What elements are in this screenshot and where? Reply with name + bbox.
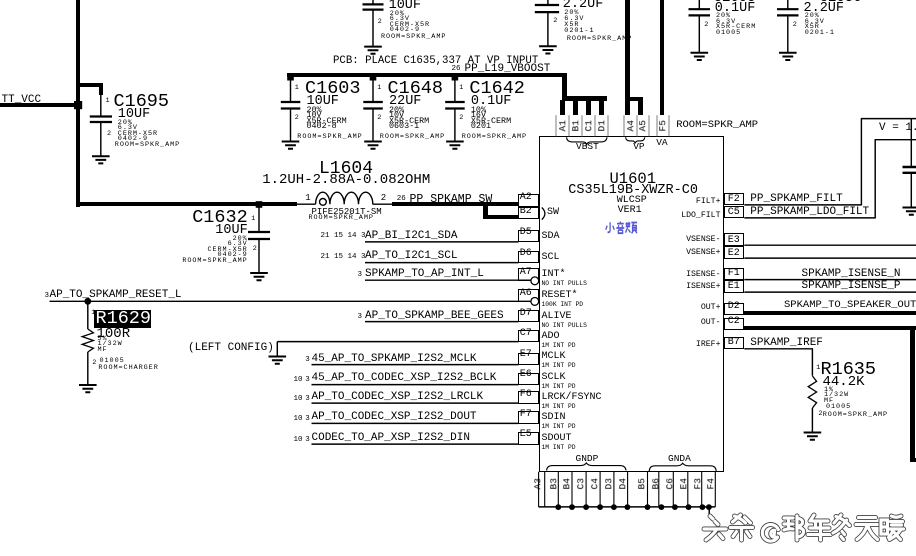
- capacitor C1603 dielectric: [307, 117, 347, 125]
- wire SPKAMP_TO_AP_INT_L: [365, 279, 531, 281]
- wire BATT_VCC horizontal: [0, 103, 80, 107]
- capacitor cap2 package: [564, 28, 594, 35]
- note PCB placement: [333, 56, 538, 67]
- capacitor C1695 tolerance: [118, 120, 133, 127]
- resistor R1629 designator: [96, 310, 152, 329]
- wire 45_AP_TO_SPKAMP_I2S2_MCLK: [312, 364, 519, 366]
- pin label C6: [666, 464, 676, 504]
- pin name VSENSEn: [686, 236, 720, 244]
- pin number F2: [728, 195, 740, 205]
- capacitor C1648 package: [389, 122, 419, 130]
- pin box C5: [724, 206, 745, 219]
- capacitor C1603 room: [297, 134, 362, 141]
- pin number A7: [520, 268, 532, 278]
- net PP_SPKAMP_SW: [410, 194, 493, 206]
- capacitor C1603 pin 2: [295, 115, 300, 122]
- pin label A1: [558, 105, 568, 145]
- wire VP vertical: [625, 0, 630, 115]
- brace VBST: [567, 137, 608, 144]
- label VA: [656, 138, 667, 148]
- capacitor cap1 value: [389, 0, 421, 12]
- pin label A5: [638, 105, 648, 145]
- wire VP branch to A5: [625, 97, 643, 101]
- label GNDA: [668, 454, 691, 464]
- wire C1648 lead top: [372, 76, 374, 101]
- wire AP_TO_SPKAMP_RESET_L: [50, 300, 532, 302]
- net SPKAMP_ISENSE_N: [802, 269, 901, 280]
- pin name IREFp: [696, 341, 721, 349]
- capacitor C1695 pin 2: [107, 131, 112, 138]
- pin note 1: [542, 302, 584, 308]
- capacitor C1642 value: [471, 95, 512, 109]
- wire cap1 lead top: [372, 0, 374, 4]
- wire VA vertical: [660, 0, 664, 115]
- pin label B5: [637, 464, 647, 504]
- wire GND bus drop: [708, 507, 710, 518]
- watermark strokes: [704, 516, 726, 540]
- resistor R1635 pin 2: [818, 411, 823, 418]
- net ref SDA: [321, 233, 366, 241]
- inductor L1604 designator: [319, 160, 373, 178]
- capacitor C1648 plates: [363, 102, 383, 109]
- pin box E2: [724, 246, 745, 259]
- capacitor C1648 pin 1: [377, 85, 382, 92]
- pin name OUTn: [701, 319, 721, 327]
- pin name LDO_FILT: [681, 212, 720, 220]
- junction R1629 tap: [84, 298, 91, 305]
- pin number C7: [520, 329, 532, 339]
- net ref MCLK: [305, 357, 310, 365]
- capacitor C1648 dielectric: [389, 117, 429, 125]
- pin label D4: [618, 464, 628, 504]
- pin note 8: [542, 445, 576, 451]
- pin note 0: [542, 281, 587, 287]
- inductor L1604 part number: [312, 208, 382, 217]
- junction C1642 tap: [452, 74, 459, 81]
- wire AP_TO_CODEC_XSP_I2S2_DOUT: [312, 422, 519, 424]
- pin name ADO: [542, 332, 560, 342]
- wire VBST corner down: [562, 73, 567, 101]
- capacitor cap1 package: [390, 27, 420, 34]
- pin number C2: [728, 317, 740, 327]
- wire branch to C1695: [76, 83, 103, 87]
- resistor R1635 pin 1: [816, 365, 821, 372]
- capacitor C1642 pin 1: [459, 85, 464, 92]
- capacitor cap2 room: [567, 36, 632, 43]
- ground C1648: [364, 142, 382, 149]
- resistor R1629 pin 2: [92, 360, 97, 367]
- wire CODEC_TO_AP_XSP_I2S2_DIN: [312, 443, 519, 445]
- pin note 2: [542, 323, 587, 329]
- junction GNDP bus x586: [583, 504, 589, 510]
- pin box B2: [518, 207, 539, 220]
- pin box A7: [518, 268, 539, 281]
- wire VBST stub C1: [586, 100, 591, 115]
- pin label F3: [693, 464, 703, 504]
- capacitor cap1 voltage: [390, 16, 410, 23]
- capacitor C1605 value: [715, 2, 756, 16]
- note V = 1.8: [879, 123, 916, 134]
- capacitor cap1 plates: [363, 4, 384, 9]
- pin box F7: [518, 411, 539, 424]
- capacitor cap2 voltage: [564, 16, 584, 23]
- capacitor C1642 designator: [469, 80, 525, 99]
- ground cap4: [779, 53, 797, 60]
- pin box F6: [518, 391, 539, 404]
- capacitor C1695 plates: [90, 117, 112, 123]
- capacitor C1695 pin 1: [106, 98, 111, 105]
- net SPKAMP_IREF: [750, 338, 823, 349]
- net SPKAMP_TO_AP_INT_L: [365, 269, 484, 280]
- resistor R1635 room: [823, 412, 888, 419]
- pin name ISENSEn: [686, 271, 720, 279]
- capacitor C1632 pin 2: [253, 246, 258, 253]
- pin box D6: [518, 251, 539, 264]
- net CODEC_TO_AP_XSP_I2S2_DIN: [312, 433, 470, 444]
- pin number F1: [728, 269, 740, 279]
- resistor R1629 room: [98, 365, 158, 372]
- label VBST: [576, 142, 599, 152]
- capacitor C1642 pin 2: [459, 115, 464, 122]
- op-amp U1601 designator: [610, 172, 657, 188]
- pin label B1: [571, 105, 581, 145]
- net ref DOUT 3: [305, 416, 310, 424]
- capacitor C1648 tolerance: [389, 106, 404, 114]
- label VP: [633, 142, 644, 152]
- wire cap3 lead top: [698, 0, 700, 9]
- op-amp U1601 part number: [568, 184, 698, 198]
- ground C1695: [92, 156, 110, 163]
- wire C1648 lead bottom: [372, 110, 374, 142]
- junction GNDA bus x674: [672, 504, 678, 510]
- pin name OUTp: [701, 304, 721, 312]
- annotation xiao yin pin: [606, 222, 637, 234]
- wire cap3 lead bottom: [698, 16, 700, 52]
- capacitor C1603 plates: [281, 102, 301, 109]
- capacitor C1648 room: [380, 134, 445, 141]
- pin name INTstar: [542, 270, 566, 280]
- op-amp U1601 VER1: [618, 206, 642, 216]
- wire VCC vertical main: [76, 0, 80, 207]
- capacitor C1695 dielectric: [118, 131, 158, 138]
- capacitor cap1 tolerance: [390, 11, 405, 18]
- junction GNDA bus x702: [700, 504, 706, 510]
- ground LEFT CONFIG: [269, 357, 287, 364]
- wire VBST bar over pins: [562, 96, 607, 100]
- capacitor C1642 plates: [445, 102, 465, 109]
- net ref LRCLK 3: [305, 396, 310, 404]
- wire SPKAMP_TO_SPEAKER_OUT+ D2: [744, 311, 916, 316]
- resistor R1635 power: [824, 392, 849, 399]
- capacitor C1642 tolerance: [471, 106, 486, 114]
- wire VBST stub B1: [573, 100, 578, 115]
- wire B2 jog vertical: [483, 202, 488, 219]
- capacitor C1605 tolerance: [716, 13, 731, 20]
- pin number A2: [520, 193, 532, 203]
- capacitor C1603 value: [307, 95, 339, 109]
- pin name SDIN: [542, 413, 566, 423]
- ground C1642: [446, 142, 464, 149]
- ground C1632: [250, 273, 268, 280]
- capacitor C1642 dielectric: [471, 117, 511, 125]
- net PP_SPKAMP_FILT: [750, 194, 842, 205]
- pin number D2: [728, 302, 740, 312]
- resistor R1629 package: [100, 358, 125, 365]
- pin name ISENSEp: [686, 283, 720, 291]
- capacitor cap2 tolerance: [564, 10, 579, 17]
- resistor R1629 power: [98, 341, 123, 348]
- pin label A3: [533, 464, 543, 504]
- wire C7 from ground: [277, 342, 518, 357]
- wire VBST stub D1: [599, 100, 604, 115]
- capacitor C1605 voltage: [716, 19, 736, 26]
- inductor L1604 coil: [316, 192, 373, 204]
- net 45_AP_TO_SPKAMP_I2S2_MCLK: [312, 354, 477, 365]
- resistor R1629 designator highlight: [94, 310, 151, 328]
- resistor R1635 type: [824, 398, 834, 405]
- pin name SCLK: [542, 373, 566, 383]
- capacitor C1603 tolerance: [307, 106, 322, 114]
- wire L1604 pin1 lead: [297, 203, 316, 205]
- capacitor C1605 dielectric: [716, 24, 756, 31]
- capacitor C1632 value: [215, 224, 247, 238]
- capacitor C1636 designator cut: [820, 0, 862, 5]
- wire VBST stub A1: [560, 100, 565, 115]
- capacitor cap2 plates: [535, 5, 559, 12]
- junction GNDP bus x600: [597, 504, 603, 510]
- pin number F6: [520, 390, 532, 400]
- pin number E6: [520, 370, 532, 380]
- pin number D6: [520, 249, 532, 259]
- inverter bubble RESET* A6: [531, 298, 539, 306]
- capacitor C1603 pin 1: [295, 85, 300, 92]
- capacitor cap2 value: [563, 0, 604, 12]
- pin name LRCK_FSYNC: [542, 393, 602, 403]
- ground C1603: [282, 142, 300, 149]
- pin name FILTp: [696, 198, 721, 206]
- net SPKAMP_ISENSE_P: [802, 281, 901, 292]
- pin note 6: [542, 404, 576, 410]
- wire C1632 lead bottom: [258, 240, 260, 273]
- net ref 26 VBOOST: [452, 66, 461, 74]
- net ref SCL: [321, 254, 366, 262]
- pin name SCL: [542, 253, 560, 263]
- pin label C1: [584, 105, 594, 145]
- pin box E7: [518, 353, 539, 366]
- capacitor C1636 dielectric: [805, 24, 820, 31]
- capacitor C1605 designator cut: [714, 0, 756, 5]
- capacitor cap2 dielectric: [564, 22, 579, 29]
- junction GNDP bus x572: [569, 504, 575, 510]
- capacitor C1695 room: [115, 142, 180, 149]
- resistor R1629 tolerance: [98, 336, 108, 343]
- inductor L1604 polarity circle: [320, 199, 327, 206]
- inverter bubble INT* A7: [531, 277, 539, 285]
- wire cap4 lead bottom: [787, 16, 789, 52]
- wire cap2 lead bottom: [547, 13, 549, 46]
- capacitor C1632 pin 1: [251, 216, 256, 223]
- wire R1635 lead bottom: [811, 408, 813, 432]
- wire FILT cap lead bottom: [910, 174, 912, 207]
- capacitor C1605 pin 2: [704, 22, 709, 29]
- pin name SDA: [542, 232, 560, 242]
- resistor R1629 type: [98, 347, 108, 354]
- capacitor C1648 pin 2: [377, 115, 382, 122]
- capacitor C1603 package: [307, 122, 337, 130]
- pin name MCLK: [542, 352, 566, 362]
- wire 45_AP_TO_CODEC_XSP_I2S2_BCLK: [312, 384, 519, 386]
- pin number C5: [728, 208, 740, 218]
- inductor L1604 pin 2: [381, 194, 386, 203]
- net ref RESET_L: [45, 293, 50, 301]
- wire VCC corner to L1604: [76, 202, 297, 206]
- junction GNDP bus x627: [625, 504, 631, 510]
- pin number E2: [728, 249, 740, 259]
- capacitor cap1 pin 2: [378, 19, 383, 26]
- capacitor C1695 package: [118, 136, 148, 143]
- capacitor C1636 tolerance: [805, 13, 820, 20]
- wire cap4 lead top: [787, 0, 789, 9]
- wire SPKAMP_ISENSE_N F1: [744, 279, 916, 281]
- capacitor cap2 pin 2: [553, 18, 558, 25]
- capacitor C1648 value: [389, 95, 421, 109]
- capacitor C1603 designator: [305, 80, 361, 99]
- junction GNDP bus x613: [611, 504, 617, 510]
- wire C1642 lead top: [454, 76, 456, 101]
- resistor R1635 designator: [821, 361, 877, 380]
- net AP_TO_SPKAMP_RESET_L: [50, 290, 182, 301]
- net PP_L19_VBOOST: [465, 64, 551, 75]
- net ref INT_L: [358, 272, 363, 280]
- net TT_VCC label: [2, 95, 42, 106]
- capacitor C1636 package: [805, 30, 835, 37]
- pin number B7: [728, 338, 740, 348]
- pin number E7: [520, 350, 532, 360]
- pin label D1: [597, 105, 607, 145]
- note ROOM=SPKR_AMP class: [676, 120, 758, 131]
- pin box E1: [724, 280, 745, 293]
- pin label D3: [604, 464, 614, 504]
- ground cap2: [539, 46, 557, 53]
- net AP_TO_SPKAMP_BEE_GEES: [365, 311, 504, 322]
- junction GNDA bus x647: [645, 504, 651, 510]
- net ref BEE_GEES: [358, 314, 363, 322]
- pin box F1: [724, 268, 745, 281]
- inductor L1604 value: [262, 173, 430, 187]
- junction GNDA bus x661: [659, 504, 665, 510]
- resistor R1635 tolerance: [824, 387, 834, 394]
- pin number D7: [520, 309, 532, 319]
- capacitor C1648 voltage: [389, 111, 404, 119]
- net AP_BI_I2C1_SDA: [365, 231, 457, 242]
- pin label C3: [576, 464, 586, 504]
- capacitor C1636 pin 2: [793, 22, 798, 29]
- pin name SW: [547, 208, 559, 218]
- pin box A6: [518, 289, 539, 302]
- pin note 7: [542, 424, 576, 430]
- ground cap1: [364, 47, 382, 54]
- pin box E6: [518, 373, 539, 386]
- resistor R1635 value: [823, 375, 865, 389]
- capacitor cap1 dielectric: [390, 22, 430, 29]
- net PP_SPKAMP_LDO_FILT: [750, 207, 869, 218]
- net ref DIN 3: [305, 437, 310, 445]
- pin name ALIVE: [542, 312, 572, 322]
- wire OUT- foot: [910, 458, 916, 462]
- pin name SDOUT: [542, 434, 572, 444]
- ground R1629: [79, 385, 97, 392]
- pin box D7: [518, 310, 539, 323]
- pin label B3: [549, 464, 559, 504]
- junction BATT_VCC: [74, 101, 82, 109]
- pin box C7: [518, 330, 539, 343]
- wire branch stub down C1695: [99, 83, 103, 95]
- junction C1632 tap: [256, 201, 263, 208]
- ground R1635: [804, 433, 822, 440]
- capacitor C1636 value: [804, 2, 845, 16]
- pin number B2: [520, 207, 532, 217]
- pin number E3: [728, 236, 740, 246]
- ground C_FILT: [903, 208, 916, 215]
- pin label B6: [651, 464, 661, 504]
- junction C1648 tap: [370, 74, 377, 81]
- resistor R1629 zigzag: [82, 329, 93, 352]
- capacitor C1632 dielectric: [207, 247, 247, 254]
- pin label B4: [563, 464, 573, 504]
- wire PP_SPKAMP_FILT: [744, 119, 916, 206]
- capacitor C1632 tolerance: [233, 236, 248, 243]
- net ref DOUT: [294, 416, 303, 424]
- net AP_TO_I2C1_SCL: [365, 251, 457, 262]
- brace VP: [626, 137, 645, 143]
- brace GNDA: [649, 463, 716, 471]
- pin number D5: [520, 228, 532, 238]
- capacitor C1632 designator: [192, 209, 248, 228]
- pin name VSENSEp: [686, 249, 720, 257]
- capacitor cap4 C1636 plates: [777, 9, 799, 15]
- wire C1603 lead top: [290, 76, 292, 101]
- wire OUT- vertical at right edge: [910, 326, 915, 463]
- wire SPKAMP_IREF B7: [744, 349, 813, 376]
- pin box C2: [724, 318, 745, 331]
- wire AP_TO_CODEC_XSP_I2S2_LRCLK: [312, 402, 519, 404]
- pin label E4: [679, 464, 689, 504]
- ground cap3: [691, 53, 709, 60]
- wire VSENSE+ E2: [744, 257, 916, 259]
- wire AP_TO_SPKAMP_BEE_GEES: [365, 321, 519, 323]
- resistor R1629 value: [97, 327, 131, 341]
- pin label C4: [590, 464, 600, 504]
- pin box A2: [518, 194, 539, 207]
- resistor R1635 zigzag: [808, 376, 816, 408]
- net SPKAMP_TO_SPEAKER_OUT: [784, 300, 916, 311]
- capacitor C1695 designator: [114, 93, 170, 112]
- net AP_TO_CODEC_XSP_I2S2_DOUT: [312, 412, 477, 423]
- capacitor C1642 package: [471, 122, 491, 130]
- wire VSENSE- E3: [744, 244, 916, 246]
- pin number F7: [520, 410, 532, 420]
- net AP_TO_CODEC_XSP_I2S2_LRCLK: [312, 392, 484, 403]
- wire FILT cap lead top: [910, 119, 912, 166]
- wire PP_SPKAMP_LDO_FILT: [744, 140, 916, 219]
- capacitor C1603 voltage: [307, 111, 322, 119]
- wire C1695 bottom lead: [100, 123, 102, 156]
- wire C1603 lead bottom: [290, 110, 292, 142]
- capacitor C1648 designator: [388, 80, 444, 99]
- pin box F2: [724, 193, 745, 206]
- pin box D5: [518, 230, 539, 243]
- wire VBST horizontal PP_L19_VBOOST: [287, 73, 567, 77]
